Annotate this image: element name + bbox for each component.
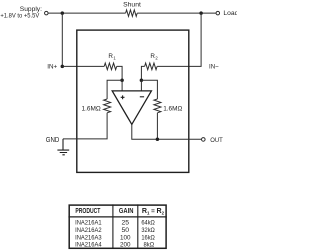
op-amp - input sign [140, 96, 144, 98]
resistor 1.6M right bottom lead [156, 113, 158, 139]
svg-text:1: 1 [113, 56, 116, 61]
node B junction (R2 / -input / 1.6M right) [140, 79, 144, 83]
wire IN+ drop [61, 13, 63, 66]
svg-text:8kΩ: 8kΩ [144, 242, 155, 249]
svg-text:2: 2 [155, 56, 158, 61]
resistor R2 [145, 63, 157, 70]
svg-text:PRODUCT: PRODUCT [75, 208, 101, 215]
resistor 1.6M left top lead [107, 80, 122, 99]
junction IN+ [61, 65, 65, 69]
resistor 1.6M left [104, 99, 111, 113]
svg-text:+1.8V to +5.5V: +1.8V to +5.5V [0, 13, 40, 20]
resistor R1 [104, 63, 116, 70]
wire -input stub [140, 80, 142, 91]
junction output / feedback [156, 137, 160, 141]
wire R2 to node B [141, 66, 144, 80]
IC box U1 [77, 30, 189, 172]
svg-text:100: 100 [120, 234, 131, 241]
svg-text:INA216A4: INA216A4 [75, 242, 102, 249]
svg-text:32kΩ: 32kΩ [141, 227, 155, 234]
svg-text:1.6MΩ: 1.6MΩ [82, 106, 101, 113]
op-amp + input sign [121, 95, 125, 99]
terminal Load [216, 11, 220, 15]
node A junction (R1 / +input / 1.6M left) [120, 79, 124, 83]
svg-text:GAIN: GAIN [119, 208, 134, 215]
svg-text:OUT: OUT [210, 137, 223, 144]
svg-text:16kΩ: 16kΩ [141, 234, 155, 241]
resistor 1.6M right top lead [141, 80, 157, 99]
svg-text:INA216A3: INA216A3 [75, 234, 102, 241]
wire op-amp output [132, 124, 202, 139]
svg-text:25: 25 [122, 219, 130, 226]
svg-text:INA216A2: INA216A2 [75, 227, 102, 234]
wire IN- drop [157, 13, 201, 66]
wire supply to shunt [48, 12, 125, 14]
op-amp A1 [112, 91, 151, 125]
terminal Supply [45, 11, 49, 15]
table header separator [68, 216, 166, 218]
svg-text:Load: Load [223, 10, 237, 17]
svg-text:200: 200 [120, 242, 131, 249]
svg-text:Shunt: Shunt [123, 1, 141, 8]
table: gain options [68, 204, 166, 248]
wire R1 to node A [117, 66, 122, 80]
svg-text:50: 50 [122, 227, 130, 234]
resistor 1.6M right [154, 99, 161, 113]
svg-text:IN−: IN− [209, 63, 219, 70]
svg-text:INA216A1: INA216A1 [75, 219, 102, 226]
svg-text:GND: GND [46, 137, 60, 144]
terminal OUT [202, 138, 206, 142]
wire IN+ to R1 [62, 65, 104, 67]
junction load / IN- tap [199, 11, 203, 15]
svg-text:R1 = R2: R1 = R2 [142, 208, 165, 216]
svg-text:1.6MΩ: 1.6MΩ [163, 106, 182, 113]
svg-text:IN+: IN+ [47, 63, 57, 70]
wire shunt to load [137, 12, 216, 14]
table column separator 1 [112, 204, 114, 248]
ground symbol [57, 139, 69, 155]
table column separator 2 [137, 204, 139, 248]
resistor Shunt [126, 10, 138, 17]
wire +input stub [121, 80, 123, 91]
svg-text:64kΩ: 64kΩ [141, 219, 155, 226]
resistor 1.6M left bottom lead [63, 113, 107, 139]
table border [69, 205, 166, 248]
junction supply / IN+ tap [61, 11, 65, 15]
